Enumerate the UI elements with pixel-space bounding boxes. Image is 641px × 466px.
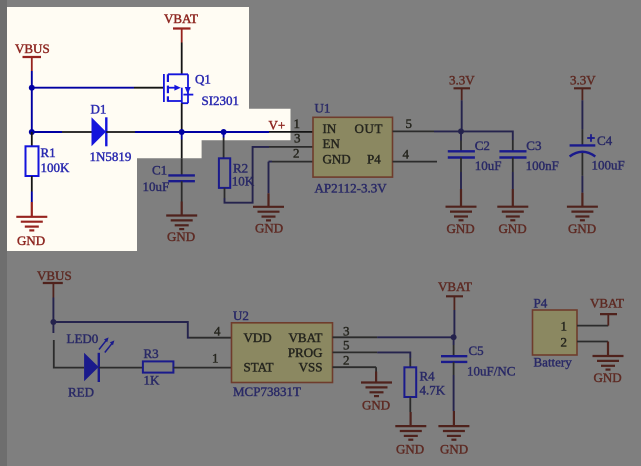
capacitor C4 pin bottom [581,153,583,176]
highlighted sheet region [7,7,291,251]
wire junction down to D1 node [31,88,33,132]
svg-text:100nF: 100nF [526,158,559,173]
capacitor C4 pin top [581,129,583,145]
svg-text:10K: 10K [232,174,255,189]
svg-text:AP2112-3.3V: AP2112-3.3V [315,181,388,196]
svg-text:4.7K: 4.7K [420,383,446,398]
svg-text:SI2301: SI2301 [202,93,240,108]
wire C3 to GND [512,172,514,189]
ground GND (C4) [567,193,598,221]
power port 3.3V (C4) [570,73,596,101]
ground GND (VSS) [361,372,392,397]
ground GND (U1) [253,193,284,220]
svg-text:LED0: LED0 [67,331,99,346]
svg-text:10uF: 10uF [143,179,170,194]
svg-text:R3: R3 [144,346,159,361]
svg-text:GND: GND [323,152,351,167]
svg-text:U1: U1 [315,101,331,116]
capacitor C3 pin bottom [512,158,514,173]
node junction at D1/R1 [29,129,35,135]
wire VBAT to node [453,310,455,337]
wire junction to VDD [53,322,190,338]
diode D1 pin anode [62,131,92,133]
svg-text:R1: R1 [41,145,56,160]
svg-text:Battery: Battery [534,355,573,370]
svg-text:C5: C5 [469,343,484,358]
wire R2 to EN [225,147,270,203]
node junction C2 [458,128,464,134]
svg-text:100K: 100K [41,160,71,175]
plus sign C4 [587,134,595,142]
wire D1 cathode to C1 node [135,131,182,133]
resistor R1 [26,146,39,176]
svg-text:C4: C4 [597,133,613,148]
svg-text:D1: D1 [91,102,107,117]
connector P4 pin 2 wire [577,341,608,343]
wire pin2 to GND [375,367,377,371]
capacitor C5 pin bottom [453,362,455,375]
ground GND (C2) [446,189,477,220]
LED LED0 symbol [84,337,114,382]
svg-text:PROG: PROG [288,345,323,360]
wire R2 node toward U1 [224,131,269,133]
svg-text:V+: V+ [269,118,286,133]
svg-text:1K: 1K [144,373,161,388]
IC U1 pin 4 wire [393,161,438,163]
svg-text:3: 3 [343,324,350,339]
svg-text:VBAT: VBAT [590,296,624,311]
wire C2 to GND [460,172,462,189]
svg-text:OUT: OUT [355,121,384,136]
capacitor C2 [448,151,475,157]
wire C2 node to C3 [461,131,513,140]
connector P4 body [533,310,578,355]
svg-text:5: 5 [406,116,413,131]
node junction at C1 [179,129,185,135]
wire R1 to GND [31,192,33,203]
node junction VBAT/C5 [451,334,457,340]
resistor R3 pin right / wire to STAT [173,367,231,369]
capacitor C2 pin top [460,131,462,140]
svg-text:EN: EN [323,136,341,151]
resistor R4 pin top [409,358,411,367]
power port VBUS (top) [15,41,50,71]
svg-text:GND: GND [255,221,283,236]
node junction at R2 [221,129,227,135]
svg-text:P4: P4 [367,152,381,167]
resistor R1 pin bottom [31,176,33,192]
svg-text:1: 1 [294,116,301,131]
svg-text:VBAT: VBAT [164,11,198,26]
node junction VBUS bottom [50,319,56,325]
LED cathode wire [99,367,143,369]
svg-text:100uF: 100uF [592,158,625,173]
svg-text:2: 2 [561,335,568,350]
svg-text:C3: C3 [526,138,541,153]
capacitor C5 [441,356,467,362]
svg-text:VBAT: VBAT [438,279,472,294]
sheet edge dark strip left [0,0,7,466]
svg-text:4: 4 [403,146,410,161]
svg-text:GND: GND [17,233,45,248]
wire C5 to GND [453,375,455,411]
resistor R4 [404,367,416,397]
wire pin5 to C2 node [434,130,461,132]
diode D1 symbol [92,117,107,146]
power port VBAT (P4) [590,296,624,326]
IC U1 body [313,117,393,177]
power port VBUS (bottom) [37,268,72,298]
ground GND (R1) [16,202,47,230]
IC U1 pin 1 wire [269,131,313,133]
svg-text:1: 1 [212,351,219,366]
svg-text:VDD: VDD [244,330,272,345]
IC U2 pin 3 wire [333,336,378,338]
wire 3.3V to C4 [581,100,583,129]
svg-text:GND: GND [396,442,424,457]
resistor R2 [219,158,230,188]
ground GND (C1) [166,202,197,230]
resistor R2 pin bottom [224,188,226,198]
transistor Q1 symbol [164,74,193,103]
capacitor C3 [499,151,526,157]
svg-text:GND: GND [447,221,475,236]
resistor R3 [143,361,174,372]
svg-text:GND: GND [362,398,390,413]
connector P4 pin 1 wire [577,325,608,327]
svg-text:VBUS: VBUS [37,268,72,283]
svg-text:GND: GND [594,370,622,385]
wire VBUS to junction (bottom) [52,298,54,323]
IC U2 body [232,323,333,383]
svg-text:C2: C2 [475,138,490,153]
power port 3.3V (C2) [449,73,475,101]
svg-text:2: 2 [343,353,350,368]
ground GND (P4) [593,342,624,370]
capacitor C2 pin bottom [460,158,462,173]
ground GND (C3) [497,189,528,220]
resistor R1 pin top [31,132,33,146]
wire C1 node to R2 node [182,131,224,133]
IC U2 pin 5 wire [333,351,378,353]
svg-text:IN: IN [323,121,337,136]
svg-text:GND: GND [440,442,468,457]
svg-text:RED: RED [68,385,94,400]
wire C1 node down [181,132,183,140]
node junction VBUS/gate [29,85,35,91]
svg-text:10uF: 10uF [475,158,502,173]
wire VBUS stem to junction [31,71,33,88]
svg-text:1N5819: 1N5819 [90,149,132,164]
capacitor C4 (polarized) [570,145,596,156]
svg-text:GND: GND [568,221,596,236]
svg-text:3.3V: 3.3V [449,73,475,88]
wire pin3 to VBAT node [377,336,453,338]
capacitor C1 pin top [181,140,183,159]
svg-text:P4: P4 [534,296,548,311]
transistor Q1 pin drain (to VBAT) [181,43,183,75]
svg-text:VBUS: VBUS [15,41,50,56]
svg-text:3.3V: 3.3V [570,73,596,88]
resistor R4 pin bottom [409,397,411,412]
capacitor C5 pin top [453,337,455,345]
svg-text:5: 5 [343,338,350,353]
wire junction down to LED [52,322,54,333]
svg-text:R4: R4 [420,369,436,384]
svg-text:4: 4 [214,324,221,339]
IC U1 pin 5 wire [393,130,435,132]
wire junction to Q1 gate [32,87,134,89]
transistor Q1 pin source (down) [181,103,183,132]
ground GND (C5) [438,411,469,440]
capacitor C3 pin top [512,140,514,151]
wire junction to D1 anode [32,131,62,133]
wire pin5 to R4 [377,352,410,358]
resistor R2 pin top [223,138,225,159]
capacitor C1 pin bottom [181,181,183,201]
IC U2 pin 2 wire [333,366,377,368]
power port VBAT (top) [164,11,198,43]
svg-text:MCP73831T: MCP73831T [233,384,301,399]
power port VBAT (bottom) [438,279,472,310]
svg-text:3: 3 [294,131,301,146]
wire pin2 to GND [269,162,273,194]
svg-text:VSS: VSS [299,360,323,375]
svg-text:GND: GND [499,221,527,236]
LED anode wire [54,340,84,368]
IC U2 pin 4 wire [190,337,232,339]
wire 3.3V to C2 node [461,100,463,131]
ground GND (R4) [395,412,426,440]
IC U1 pin 2 wire [272,161,313,163]
svg-text:1: 1 [561,319,568,334]
diode D1 pin cathode [106,131,135,133]
transistor Q1 pin gate [134,87,164,89]
svg-text:2: 2 [293,145,300,160]
svg-text:C1: C1 [152,163,167,178]
wire R2 node down [223,132,225,138]
svg-text:GND: GND [167,229,195,244]
svg-text:Q1: Q1 [195,72,211,87]
svg-text:VBAT: VBAT [289,330,323,345]
svg-text:STAT: STAT [244,360,274,375]
wire C4 to GND [581,176,583,193]
svg-text:U2: U2 [233,308,249,323]
svg-text:10uF/NC: 10uF/NC [467,364,515,379]
capacitor C1 [168,175,195,181]
IC U1 pin 3 wire [269,146,313,148]
